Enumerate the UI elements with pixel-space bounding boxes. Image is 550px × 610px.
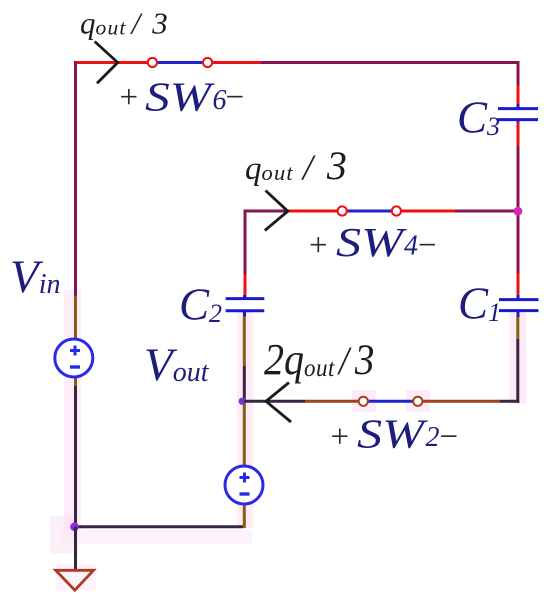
svg-text:−: − bbox=[440, 419, 459, 455]
wire left branch brown below Vin bbox=[74, 377, 77, 386]
pink highlight halo around SW2 right contact bbox=[406, 390, 430, 412]
capacitor C3 top lead stub bbox=[517, 104, 520, 109]
svg-text:+: + bbox=[309, 228, 328, 264]
voltage source V2 minus sign bbox=[240, 492, 250, 495]
ground symbol triangle bbox=[56, 570, 94, 590]
wire SW2 rail brown right bbox=[418, 400, 500, 403]
junction dot SW4 node bbox=[514, 207, 523, 216]
wire left branch maroon upper bbox=[74, 61, 77, 296]
junction dot Vout node bbox=[239, 398, 246, 405]
switch SW6 left contact bbox=[148, 58, 157, 67]
svg-text:+: + bbox=[331, 419, 350, 455]
wire top rail red segment right of SW6 bbox=[208, 61, 261, 64]
voltage source Vin circle bbox=[55, 339, 93, 377]
capacitor C3 bottom lead stub bbox=[517, 120, 520, 124]
switch SW4 right contact bbox=[392, 206, 401, 215]
wire right branch dark lower bbox=[516, 339, 519, 403]
capacitor C2 top plate bbox=[226, 297, 265, 300]
capacitor C1 top plate bbox=[499, 298, 539, 301]
wire right branch red above C1 bbox=[517, 273, 520, 297]
svg-text:−: − bbox=[418, 228, 437, 264]
wire right branch red above C3 bbox=[517, 85, 520, 106]
wire SW2 rail brown left bbox=[305, 400, 363, 403]
wire mid branch brown above source V2 bbox=[243, 401, 246, 466]
capacitor C1 top lead stub bbox=[517, 295, 520, 300]
switch SW4 left contact bbox=[338, 206, 347, 215]
pink highlight halo left branch around Vin bbox=[64, 290, 81, 530]
pink highlight halo around SW2 left contact bbox=[352, 390, 376, 412]
wire SW4 rail red right bbox=[396, 210, 455, 213]
wire left branch dark lower bbox=[74, 386, 77, 528]
pink highlight halo under bottom rail bbox=[60, 530, 252, 544]
capacitor C3 bottom plate bbox=[498, 118, 538, 121]
wire bottom rail bbox=[74, 525, 244, 528]
pink highlight halo around ground triangle bbox=[56, 564, 96, 590]
wire top rail red segment left bbox=[76, 61, 153, 64]
pink highlight halo right branch below C1 bbox=[509, 312, 526, 404]
pink highlight halo mid branch below C2 bbox=[237, 312, 253, 528]
switch SW2 left contact bbox=[359, 397, 368, 406]
wire mid branch brown below source V2 bbox=[243, 504, 246, 528]
wire SW4 rail maroon right bbox=[455, 210, 518, 213]
wire right branch red below C3 bbox=[517, 122, 520, 146]
voltage source V2 circle bbox=[225, 466, 263, 504]
capacitor C1 bottom plate bbox=[499, 309, 539, 312]
wire SW4 rail maroon left bbox=[244, 210, 289, 213]
voltage source Vin minus sign bbox=[70, 365, 80, 368]
wire top rail maroon segment bbox=[261, 61, 520, 64]
junction dot bottom left bbox=[70, 523, 79, 532]
capacitor C3 top plate bbox=[498, 107, 538, 110]
voltage source Vin plus sign bbox=[70, 346, 80, 356]
switch SW2 blue bar bbox=[363, 400, 418, 403]
switch SW6 right contact bbox=[203, 58, 212, 67]
switch SW6 blue bar bbox=[152, 61, 208, 64]
wire right branch maroon mid bbox=[517, 146, 520, 276]
wire right branch maroon top bbox=[517, 61, 520, 85]
wire SW2 rail dark left bbox=[244, 400, 305, 403]
svg-text:+: + bbox=[120, 80, 139, 116]
wire mid branch red above C2 bbox=[244, 274, 247, 297]
svg-text:4: 4 bbox=[404, 231, 418, 262]
svg-text:−: − bbox=[226, 80, 245, 116]
svg-text:2: 2 bbox=[426, 422, 440, 453]
voltage source V2 plus sign bbox=[240, 473, 250, 483]
svg-text:SW: SW bbox=[357, 411, 429, 457]
wire left branch brown above Vin bbox=[74, 296, 77, 339]
arrow charge flow top (qout/3) bbox=[95, 42, 118, 84]
capacitor C1 bottom lead stub bbox=[517, 311, 520, 317]
capacitor C2 top lead stub bbox=[243, 295, 246, 299]
svg-text:6: 6 bbox=[213, 85, 227, 116]
svg-text:SW: SW bbox=[336, 219, 408, 265]
wire ground stem bbox=[74, 527, 77, 570]
arrow charge flow SW2 (2qout/3, pointing left) bbox=[266, 383, 291, 423]
wire SW2 rail dark right bbox=[500, 400, 519, 403]
arrow charge flow mid (qout/3) bbox=[265, 191, 288, 231]
svg-text:SW: SW bbox=[145, 74, 216, 120]
capacitor C2 bottom plate bbox=[226, 309, 265, 312]
wire mid branch dark above junction bbox=[243, 366, 246, 401]
pink highlight halo around ground bbox=[50, 516, 78, 554]
switch SW4 blue bar bbox=[342, 210, 396, 213]
switch SW2 right contact bbox=[413, 397, 422, 406]
wire right branch brown below C1 bbox=[516, 317, 519, 339]
wire SW4 rail red left bbox=[288, 210, 342, 213]
capacitor C2 bottom lead stub bbox=[243, 311, 246, 317]
wire mid branch maroon below corner bbox=[244, 210, 247, 275]
wire mid branch brown below C2 bbox=[243, 317, 246, 367]
